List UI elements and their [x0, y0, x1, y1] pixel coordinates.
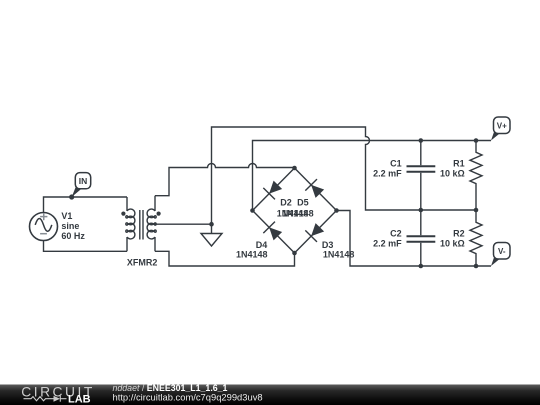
label R1	[440, 159, 465, 179]
label R2	[440, 229, 465, 249]
transformer secondary polarity dot	[157, 212, 161, 216]
node bridge right	[334, 208, 339, 213]
svg-text:IN: IN	[79, 176, 88, 186]
CircuitLab logo wordmark	[21, 385, 94, 405]
transformer XFMR2 primary winding	[126, 197, 135, 251]
diode D4 (anode: bottom node, cathode: left node)	[253, 211, 295, 254]
svg-text:60 Hz: 60 Hz	[61, 231, 85, 241]
junction R1 top	[474, 138, 479, 143]
svg-text:V-: V-	[498, 247, 506, 256]
svg-text:V1: V1	[61, 211, 72, 221]
svg-text:D4: D4	[256, 240, 268, 250]
wire V1 bottom lead to primary bottom	[44, 241, 128, 252]
junction C1 top	[419, 138, 424, 143]
label V1 value	[61, 211, 85, 241]
diode D3 (anode: right node, cathode: bottom node)	[295, 211, 337, 254]
junction center tap / ground	[209, 222, 214, 227]
resistor R1	[470, 141, 482, 211]
transformer core	[140, 210, 143, 240]
flag IN (net label on V1 top wire)	[69, 173, 91, 200]
junction C2 bottom	[419, 264, 424, 269]
transformer XFMR2 secondary winding	[147, 196, 156, 252]
flag V+	[491, 117, 510, 141]
diode D2 (anode: top node, cathode: left node)	[253, 168, 295, 211]
node bridge top	[292, 166, 297, 171]
svg-text:R2: R2	[453, 229, 465, 239]
svg-text:http://circuitlab.com/c7q9q299: http://circuitlab.com/c7q9q299d3uv8	[113, 391, 263, 402]
wire secondary bottom to bridge bottom node	[155, 251, 295, 266]
capacitor C1	[407, 141, 436, 211]
svg-text:10 kΩ: 10 kΩ	[440, 238, 465, 248]
svg-text:2.2 mF: 2.2 mF	[373, 168, 402, 178]
wire bridge left node up to V+ top rail (hops over secondary-top wire)	[253, 141, 492, 211]
wire V1 top lead to primary (node with IN flag)	[44, 197, 128, 213]
svg-text:XFMR2: XFMR2	[127, 257, 158, 267]
svg-text:D2: D2	[280, 198, 292, 208]
node bridge left	[250, 208, 255, 213]
junction R2 bottom	[474, 264, 479, 269]
diode D5 (anode: right node, cathode: top node)	[295, 168, 337, 211]
svg-text:1N4148: 1N4148	[236, 250, 268, 260]
svg-text:D5: D5	[297, 198, 309, 208]
node bridge bottom	[292, 251, 297, 256]
wire secondary center tap to ground junction	[153, 223, 212, 225]
capacitor C2	[407, 210, 436, 266]
svg-text:LAB: LAB	[68, 393, 91, 405]
svg-text:C2: C2	[390, 229, 402, 239]
voltage source V1 (sine, 60 Hz)	[30, 213, 58, 241]
transformer primary polarity dot	[121, 212, 125, 216]
svg-text:2.2 mF: 2.2 mF	[373, 238, 402, 248]
junction R1 bottom	[474, 208, 479, 213]
label C1	[373, 159, 402, 179]
wire secondary top to bridge top node (hops over two verticals)	[155, 164, 295, 196]
flag V-	[491, 243, 510, 267]
svg-text:V+: V+	[497, 121, 507, 130]
ground symbol	[201, 224, 222, 246]
svg-text:R1: R1	[453, 159, 465, 169]
svg-text:C1: C1	[390, 159, 402, 169]
junction C1 bottom	[419, 208, 424, 213]
svg-text:10 kΩ: 10 kΩ	[440, 168, 465, 178]
wire bridge right node down to V- bottom rail	[337, 211, 492, 267]
wire ground net: center tap up over to middle rail (hops over top rail)	[212, 127, 477, 224]
svg-text:sine: sine	[61, 221, 79, 231]
svg-text:1N4148: 1N4148	[282, 208, 314, 218]
footer bar	[0, 385, 540, 405]
resistor R2	[470, 210, 482, 266]
label C2	[373, 229, 402, 249]
svg-text:D3: D3	[322, 240, 334, 250]
